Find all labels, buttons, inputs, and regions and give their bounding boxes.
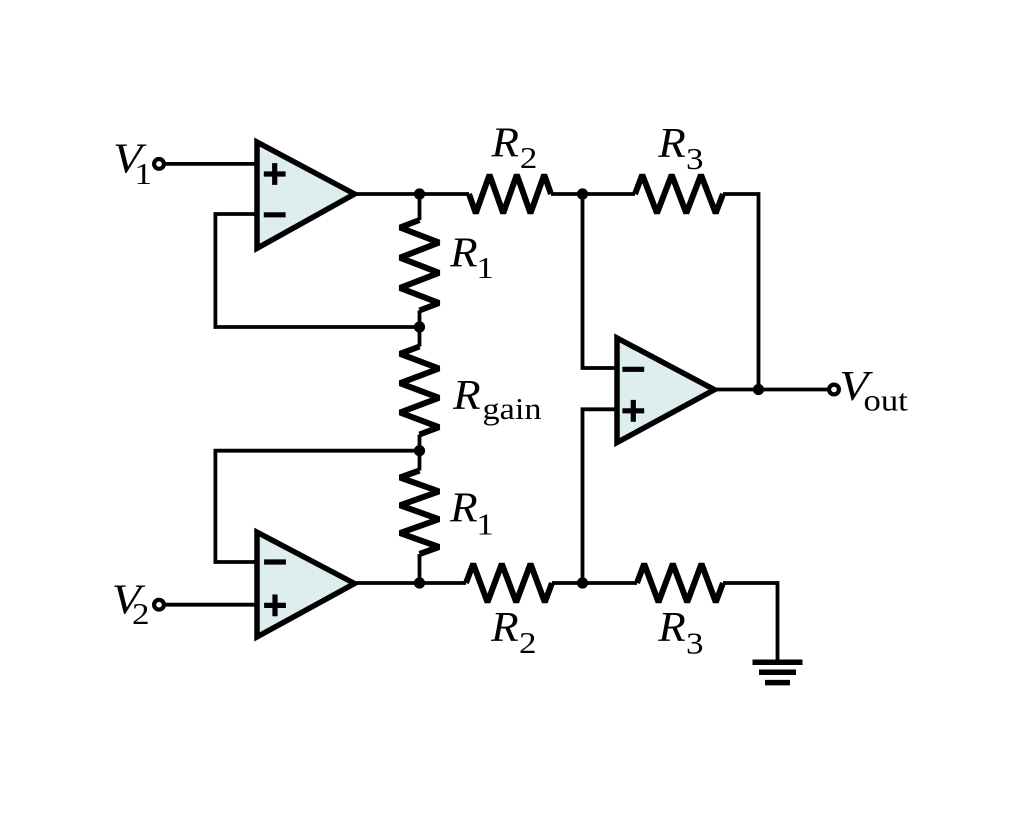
terminal V2 xyxy=(154,600,164,610)
resistor R1 lower xyxy=(400,471,439,555)
svg-text:1: 1 xyxy=(476,250,494,285)
terminal V1 xyxy=(154,159,164,169)
svg-text:R: R xyxy=(657,121,686,167)
svg-text:R: R xyxy=(657,605,686,651)
svg-text:3: 3 xyxy=(686,141,704,176)
svg-text:2: 2 xyxy=(519,625,537,660)
label Rgain xyxy=(452,373,542,426)
node D junction xyxy=(414,577,425,588)
label R2 bottom xyxy=(490,605,536,660)
op-amp U3 xyxy=(617,338,715,443)
wire U1 output to top rail xyxy=(350,192,469,196)
op-amp U1 xyxy=(257,142,355,248)
label R1 upper xyxy=(449,230,494,285)
resistor R2 bottom xyxy=(466,564,552,602)
wire U1 feedback loop xyxy=(215,214,419,327)
svg-text:R: R xyxy=(452,373,481,419)
label R2 top xyxy=(490,121,537,175)
label V1 xyxy=(113,137,152,191)
label R3 bottom xyxy=(657,605,703,660)
node F junction xyxy=(577,577,588,588)
resistor R3 bottom xyxy=(637,564,723,602)
node B junction xyxy=(414,321,425,332)
svg-text:2: 2 xyxy=(520,140,538,175)
label V2 xyxy=(112,577,150,631)
terminal Vout xyxy=(829,385,839,395)
svg-text:gain: gain xyxy=(483,391,543,426)
wire V2 to op-amp U2 + input xyxy=(164,603,258,607)
node G junction xyxy=(753,384,764,395)
wire U3 output to Vout xyxy=(710,388,829,392)
wire R1 to node B xyxy=(418,311,422,328)
node E junction xyxy=(577,188,588,199)
wire R3 top to U3 output node xyxy=(723,194,759,390)
svg-text:3: 3 xyxy=(686,626,704,661)
svg-text:R: R xyxy=(449,230,478,276)
wire node C to R1 lower xyxy=(418,451,422,471)
svg-text:out: out xyxy=(864,383,909,418)
svg-text:1: 1 xyxy=(135,156,153,191)
wire node F to U3 + input xyxy=(583,409,619,583)
wire U2 output to bottom rail xyxy=(350,581,466,585)
svg-text:R: R xyxy=(449,485,478,531)
wire node B to Rgain xyxy=(418,327,422,347)
wire Rgain to node C xyxy=(418,435,422,451)
node C junction xyxy=(414,445,425,456)
wire R3 bottom to ground xyxy=(723,583,778,661)
resistor R1 upper xyxy=(400,220,439,311)
svg-text:R: R xyxy=(490,121,519,167)
resistor Rgain xyxy=(400,347,439,435)
node A junction xyxy=(414,188,425,199)
svg-text:R: R xyxy=(490,605,519,651)
wire node A to R1 top xyxy=(418,194,422,220)
wire between R2 and R3 top xyxy=(551,192,635,196)
label R3 top xyxy=(657,121,703,176)
wire node E to U3 - input xyxy=(583,194,619,368)
label R1 lower xyxy=(449,485,494,541)
wire U2 feedback loop xyxy=(215,451,419,562)
wire between R2 and R3 bottom xyxy=(552,581,637,585)
wire V1 to op-amp U1 + input xyxy=(164,162,258,166)
resistor R2 top xyxy=(469,175,551,213)
svg-text:2: 2 xyxy=(132,596,150,631)
label Vout xyxy=(839,364,908,417)
ground xyxy=(753,662,803,682)
svg-text:1: 1 xyxy=(476,506,494,541)
op-amp U2 xyxy=(257,532,355,637)
resistor R3 top xyxy=(635,175,723,213)
wire R1 lower to node D xyxy=(418,554,422,583)
